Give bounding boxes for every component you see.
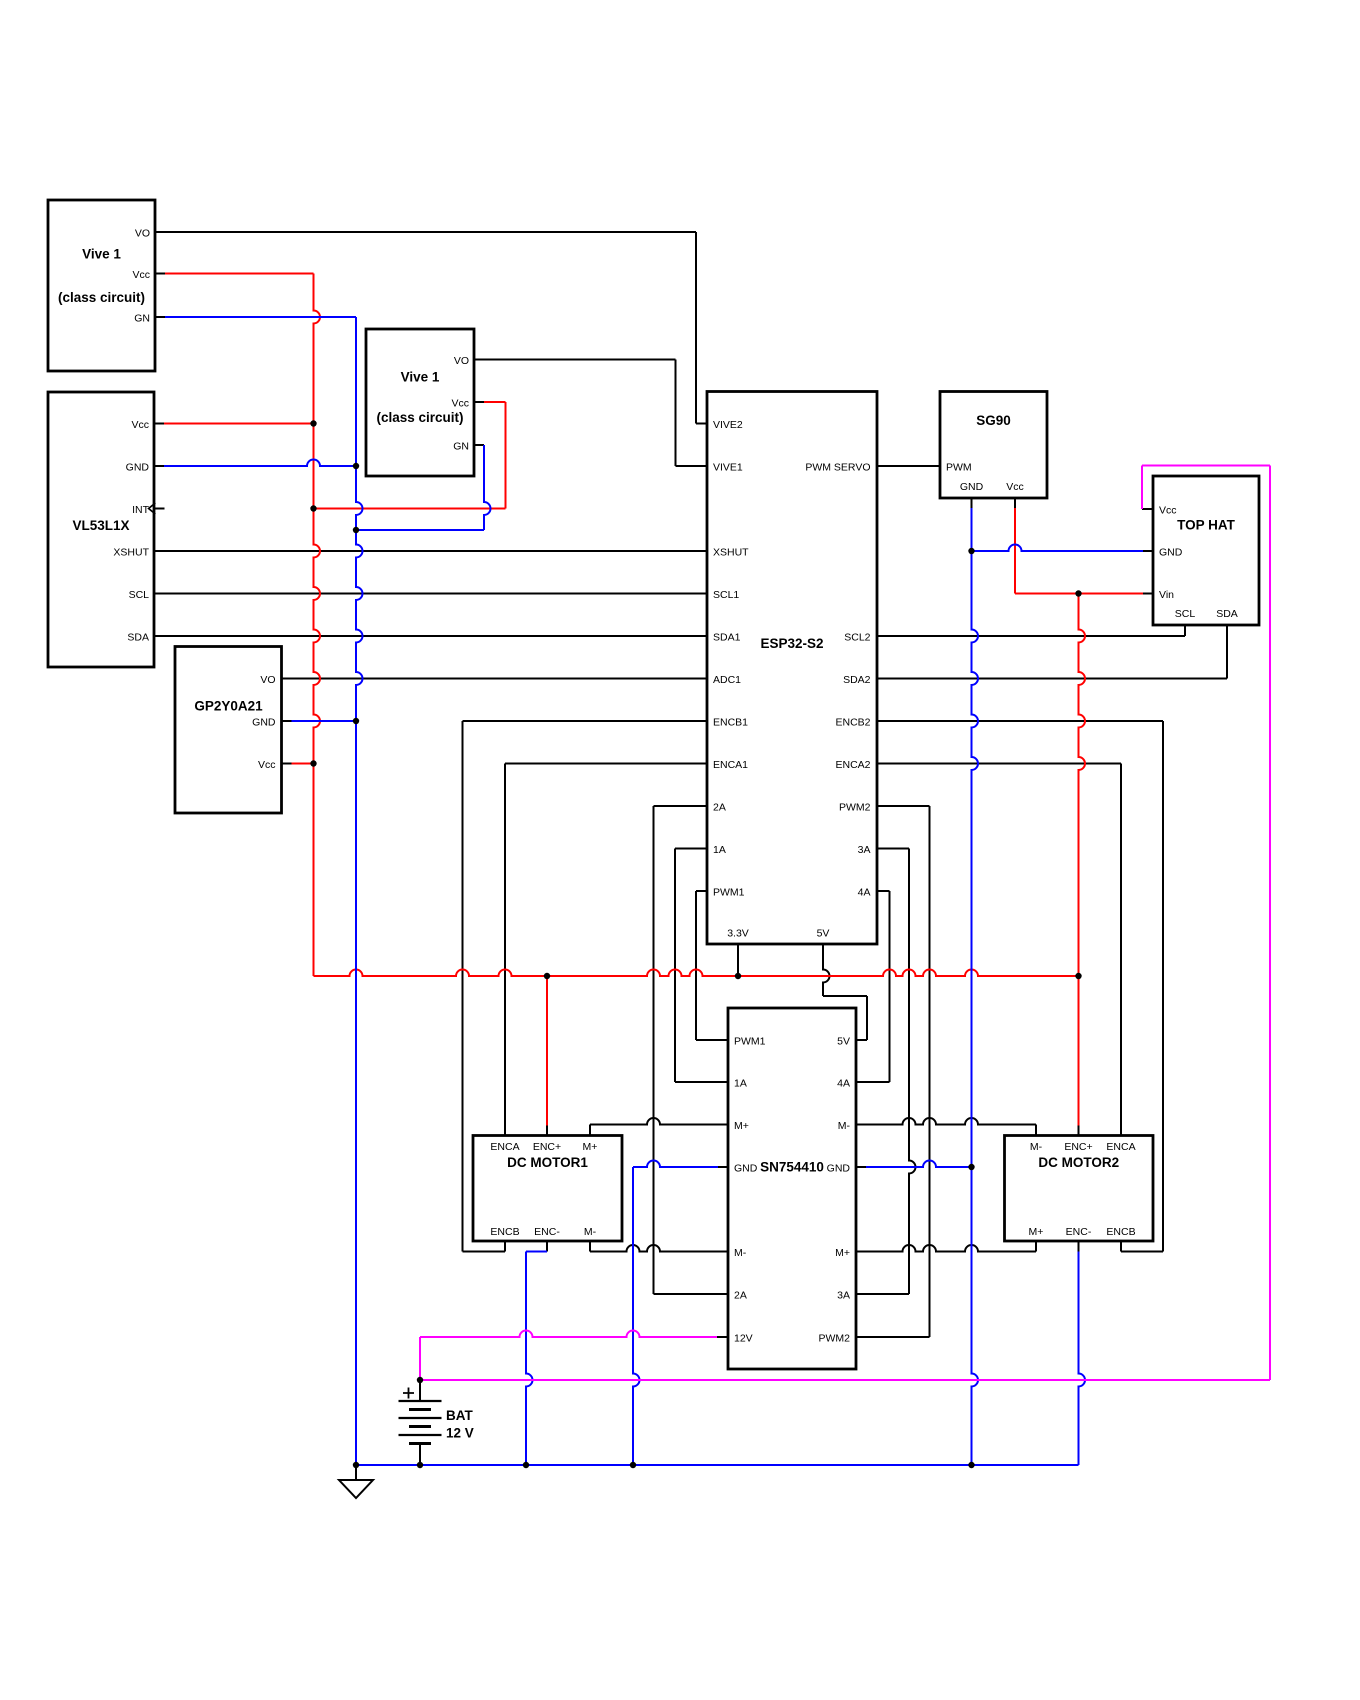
svg-text:TOP HAT: TOP HAT xyxy=(1177,518,1236,533)
svg-text:Vive 1: Vive 1 xyxy=(401,370,440,385)
svg-text:SCL: SCL xyxy=(1175,608,1196,620)
wire magenta 12V feed line xyxy=(420,1331,728,1380)
svg-text:SCL: SCL xyxy=(129,589,150,601)
svg-text:VO: VO xyxy=(135,228,150,240)
wire blue gnd bus xyxy=(356,1464,1079,1466)
svg-text:GN: GN xyxy=(453,441,469,453)
wire Vive1#2 GN to GND rail xyxy=(356,445,491,530)
svg-text:VO: VO xyxy=(454,355,469,367)
svg-text:ENCB1: ENCB1 xyxy=(713,717,748,729)
pin INT input arrow on VL53L1X xyxy=(149,503,165,514)
svg-text:Vcc: Vcc xyxy=(1159,505,1177,517)
svg-text:M-: M- xyxy=(838,1120,851,1132)
wire Vive1#2 Vcc to red rail (INT row) xyxy=(314,402,506,509)
svg-text:INT: INT xyxy=(132,504,150,516)
junction +bus / MOTOR1 ENC+ xyxy=(544,973,550,979)
svg-text:VIVE1: VIVE1 xyxy=(713,462,743,474)
svg-text:M-: M- xyxy=(1030,1141,1043,1153)
svg-text:4A: 4A xyxy=(837,1078,850,1090)
junction gnd bus / MOTOR1 ENC- xyxy=(523,1462,529,1468)
wire ENCA2 net xyxy=(877,764,1121,1136)
block TOP HAT xyxy=(1153,476,1259,625)
svg-text:M-: M- xyxy=(584,1226,597,1238)
svg-text:SCL1: SCL1 xyxy=(713,589,739,601)
IC U2 SN754410 xyxy=(728,1008,856,1369)
wire ENCB2 net xyxy=(877,721,1163,1252)
svg-text:ADC1: ADC1 xyxy=(713,674,741,686)
junction SN754410 GND right / blue vertical xyxy=(968,1164,974,1170)
junction gnd bus / SN754410 GND left xyxy=(630,1462,636,1468)
svg-text:ENCB: ENCB xyxy=(490,1226,519,1238)
svg-text:GND: GND xyxy=(252,717,276,729)
wire MOTOR1 M+ to SN754410 M+ xyxy=(590,1118,728,1136)
svg-text:Vcc: Vcc xyxy=(258,759,276,771)
junction gnd bus / ground symbol xyxy=(353,1462,359,1468)
wire GP2Y0A21 VO to ADC1 xyxy=(282,678,708,680)
svg-text:Vcc: Vcc xyxy=(451,398,469,410)
svg-text:(class circuit): (class circuit) xyxy=(58,290,145,305)
junction blue rail / GP2Y0A21 GND xyxy=(353,718,359,724)
svg-text:SDA: SDA xyxy=(1216,608,1238,620)
wire SN754410 GND right to blue vertical xyxy=(856,1161,972,1168)
svg-text:ENC+: ENC+ xyxy=(533,1141,561,1153)
junction blue rail / VL53L1X GND xyxy=(353,463,359,469)
svg-text:GND: GND xyxy=(960,481,984,493)
svg-text:M-: M- xyxy=(734,1247,747,1259)
junction gnd bus / battery - xyxy=(417,1462,423,1468)
svg-text:PWM: PWM xyxy=(946,462,972,474)
svg-text:SDA: SDA xyxy=(127,632,149,644)
sensor VL53L1X xyxy=(48,392,154,667)
wire VL53L1X GND xyxy=(154,460,356,466)
svg-text:VIVE2: VIVE2 xyxy=(713,419,743,431)
wire 1A net xyxy=(675,849,728,1083)
wire SN754410 GND left to gnd bus xyxy=(633,1161,728,1466)
svg-text:BAT: BAT xyxy=(446,1408,473,1423)
svg-text:M+: M+ xyxy=(583,1141,598,1153)
svg-text:DC MOTOR1: DC MOTOR1 xyxy=(507,1155,588,1170)
svg-text:SG90: SG90 xyxy=(976,413,1011,428)
motor DC MOTOR2 xyxy=(1005,1136,1154,1242)
svg-text:ENCB2: ENCB2 xyxy=(835,717,870,729)
svg-text:XSHUT: XSHUT xyxy=(113,547,149,559)
svg-text:12 V: 12 V xyxy=(446,1426,474,1441)
svg-text:SCL2: SCL2 xyxy=(844,632,870,644)
svg-text:PWM1: PWM1 xyxy=(713,887,745,899)
wire blue GND rail (Vive1 GN down to gnd bus) xyxy=(155,317,363,1465)
svg-text:M+: M+ xyxy=(835,1247,850,1259)
svg-text:3A: 3A xyxy=(837,1290,850,1302)
svg-text:2A: 2A xyxy=(713,802,726,814)
wire ESP32 3.3V stub to +bus xyxy=(737,944,739,976)
svg-text:VL53L1X: VL53L1X xyxy=(72,518,129,533)
svg-text:XSHUT: XSHUT xyxy=(713,547,749,559)
svg-text:3.3V: 3.3V xyxy=(727,928,749,940)
wire red vertical TOP HAT Vin to +bus to MOTOR2 ENC+ xyxy=(1079,594,1086,1136)
svg-text:Vcc: Vcc xyxy=(132,269,150,281)
svg-text:ENC-: ENC- xyxy=(1066,1226,1092,1238)
wire XSHUT net xyxy=(154,550,707,552)
svg-text:3A: 3A xyxy=(858,844,871,856)
svg-text:ENCA: ENCA xyxy=(490,1141,519,1153)
wire ENCA1 net xyxy=(505,764,707,1136)
wire PWM1 net xyxy=(696,891,728,1040)
sensor GP2Y0A21 xyxy=(175,647,282,814)
svg-text:5V: 5V xyxy=(837,1036,850,1048)
svg-text:ENC+: ENC+ xyxy=(1064,1141,1092,1153)
wire MOTOR1 M- to SN754410 M- xyxy=(590,1241,728,1252)
svg-text:Vcc: Vcc xyxy=(1006,481,1024,493)
svg-text:ENCB: ENCB xyxy=(1106,1226,1135,1238)
svg-text:1A: 1A xyxy=(713,844,726,856)
svg-text:PWM2: PWM2 xyxy=(819,1333,851,1345)
svg-text:PWM SERVO: PWM SERVO xyxy=(805,462,870,474)
wire Vive1#1 VO to ESP32 VIVE2 xyxy=(155,232,707,424)
junction red rail / INT row xyxy=(310,505,316,511)
wire SG90 Vcc to TOP HAT Vin xyxy=(1015,498,1153,594)
junction gnd bus / blue right vertical xyxy=(968,1462,974,1468)
svg-text:DC MOTOR2: DC MOTOR2 xyxy=(1038,1155,1119,1170)
junction red rail / GP2Y0A21 Vcc xyxy=(310,760,316,766)
wire MOTOR1 ENC- to gnd bus xyxy=(526,1241,547,1465)
wire SG90 GND to TOP HAT GND and down xyxy=(972,498,1154,1465)
junction red rail / VL53L1X Vcc xyxy=(310,420,316,426)
svg-text:SDA1: SDA1 xyxy=(713,632,741,644)
wire MOTOR2 M- to SN754410 M- xyxy=(856,1118,1036,1136)
svg-text:5V: 5V xyxy=(817,928,830,940)
wire SDA1 net xyxy=(154,635,707,637)
svg-text:GND: GND xyxy=(126,462,150,474)
wire 4A net xyxy=(856,891,890,1082)
wire VL53L1X Vcc xyxy=(154,423,314,425)
servo SG90 xyxy=(940,392,1047,499)
block Vive 1 (class circuit) #2 xyxy=(366,329,474,476)
wire Vive1#2 VO to ESP32 VIVE1 xyxy=(474,360,707,467)
wire ENCB1 net xyxy=(463,721,708,1252)
wire MOTOR2 ENC- to gnd bus xyxy=(1079,1241,1086,1465)
svg-text:GND: GND xyxy=(734,1163,758,1175)
svg-text:ENCA2: ENCA2 xyxy=(835,759,870,771)
junction +bus / red right vertical xyxy=(1075,973,1081,979)
junction magenta battery + xyxy=(417,1377,423,1383)
svg-text:ENCA1: ENCA1 xyxy=(713,759,748,771)
svg-text:SN754410: SN754410 xyxy=(760,1160,824,1175)
ground xyxy=(339,1465,373,1498)
motor DC MOTOR1 xyxy=(473,1136,622,1242)
svg-text:ENC-: ENC- xyxy=(534,1226,560,1238)
junction SG90 GND / TOP HAT GND xyxy=(968,548,974,554)
wire MOTOR2 M+ to SN754410 M+ xyxy=(856,1241,1036,1252)
svg-text:Vin: Vin xyxy=(1159,589,1174,601)
svg-text:ESP32-S2: ESP32-S2 xyxy=(760,636,823,651)
wire magenta TOP HAT Vcc loop xyxy=(1142,466,1270,1381)
wire PWM2 net xyxy=(856,806,930,1337)
wire red +bus horizontal xyxy=(314,970,1079,976)
junction blue rail / Vive1#2 GN xyxy=(353,527,359,533)
wire GP2Y0A21 GND xyxy=(282,720,357,722)
battery BAT 12 V xyxy=(399,1380,474,1465)
wire PWM SERVO net xyxy=(877,465,940,467)
svg-text:Vive 1: Vive 1 xyxy=(82,247,121,262)
wire ESP32 5V to SN754410 5V xyxy=(823,944,867,1040)
svg-text:SDA2: SDA2 xyxy=(843,674,871,686)
svg-text:GND: GND xyxy=(827,1163,851,1175)
svg-text:2A: 2A xyxy=(734,1290,747,1302)
wire SDA2 net xyxy=(877,625,1227,679)
junction SG90 Vcc / TOP HAT Vin xyxy=(1075,590,1081,596)
junction +bus / ESP32 3.3V xyxy=(735,973,741,979)
wire 3A net xyxy=(856,849,916,1295)
svg-text:GN: GN xyxy=(134,313,150,325)
svg-text:Vcc: Vcc xyxy=(131,419,149,431)
wire magenta battery+ distribution xyxy=(420,1379,1270,1381)
svg-text:GND: GND xyxy=(1159,547,1183,559)
wire SCL2 net xyxy=(877,625,1185,636)
svg-text:VO: VO xyxy=(260,674,275,686)
wire red Vcc rail (Vive1 Vcc down to +bus) xyxy=(155,274,320,977)
svg-text:GP2Y0A21: GP2Y0A21 xyxy=(194,699,263,714)
svg-text:1A: 1A xyxy=(734,1078,747,1090)
wire SCL1 net xyxy=(154,593,707,595)
wire +bus to MOTOR1 ENC+ xyxy=(546,976,548,1136)
svg-text:M+: M+ xyxy=(734,1120,749,1132)
svg-text:PWM2: PWM2 xyxy=(839,802,871,814)
wire GP2Y0A21 Vcc xyxy=(282,763,314,765)
block Vive 1 (class circuit) #1 xyxy=(48,200,155,371)
svg-text:4A: 4A xyxy=(858,887,871,899)
svg-text:(class circuit): (class circuit) xyxy=(376,410,463,425)
IC U1 ESP32-S2 xyxy=(707,392,877,945)
svg-text:M+: M+ xyxy=(1029,1226,1044,1238)
svg-text:PWM1: PWM1 xyxy=(734,1036,766,1048)
svg-text:ENCA: ENCA xyxy=(1106,1141,1135,1153)
wire 2A net xyxy=(654,806,729,1294)
svg-text:12V: 12V xyxy=(734,1333,753,1345)
